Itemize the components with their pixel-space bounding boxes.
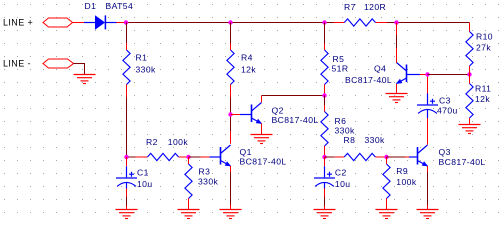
wire — [74, 64, 85, 75]
wire Q2 base — [231, 114, 241, 116]
wire Q2 collector — [261, 96, 263, 103]
svg-text:C2: C2 — [335, 167, 347, 177]
svg-text:330k: 330k — [136, 64, 157, 74]
svg-text:10u: 10u — [335, 179, 351, 189]
junction — [384, 155, 388, 159]
wire Q4 base — [407, 74, 421, 76]
ground — [417, 210, 439, 219]
svg-text:LINE +: LINE + — [3, 18, 33, 28]
svg-text:C3: C3 — [439, 96, 451, 106]
svg-text:BC817-40L: BC817-40L — [439, 157, 486, 167]
ground — [459, 125, 481, 134]
svg-text:R11: R11 — [475, 83, 491, 93]
svg-text:330k: 330k — [198, 177, 219, 187]
ground — [116, 210, 138, 219]
svg-text:R4: R4 — [241, 53, 253, 63]
node base wire to divider — [428, 74, 470, 76]
ground — [386, 94, 408, 103]
wire Q1 base — [189, 156, 201, 158]
svg-text:100k: 100k — [396, 177, 417, 187]
ground — [376, 210, 398, 219]
junction — [467, 72, 471, 76]
svg-text:120R: 120R — [364, 2, 386, 12]
wire Q1 emitter — [230, 166, 232, 172]
svg-text:10u: 10u — [137, 179, 153, 189]
junction — [322, 155, 326, 159]
svg-text:12k: 12k — [241, 64, 256, 74]
svg-text:R8: R8 — [344, 135, 356, 145]
wire — [376, 22, 388, 24]
wire — [387, 22, 470, 24]
svg-text:12k: 12k — [475, 94, 490, 104]
svg-text:C1: C1 — [137, 167, 149, 177]
wire — [117, 22, 129, 24]
wire Q2 emitter — [261, 123, 263, 134]
svg-text:27k: 27k — [476, 43, 491, 53]
svg-text:BAT54: BAT54 — [106, 1, 134, 11]
wire — [230, 85, 232, 98]
ground — [251, 135, 273, 144]
svg-text:51R: 51R — [332, 63, 349, 73]
svg-text:Q2: Q2 — [272, 105, 284, 115]
svg-text:BC817-40L: BC817-40L — [272, 115, 319, 125]
ground — [178, 210, 200, 219]
svg-text:R9: R9 — [396, 166, 408, 176]
wire Q3 collector — [427, 118, 429, 145]
ground — [314, 210, 336, 219]
svg-text:LINE -: LINE - — [3, 59, 31, 69]
ground — [74, 75, 96, 84]
svg-text:R6: R6 — [335, 116, 347, 126]
svg-text:Q4: Q4 — [374, 64, 386, 74]
svg-text:100k: 100k — [168, 137, 189, 147]
ground — [220, 210, 242, 219]
svg-text:470u: 470u — [437, 105, 458, 115]
svg-text:R3: R3 — [199, 167, 211, 177]
svg-text:330k: 330k — [335, 126, 356, 136]
wire — [179, 156, 189, 158]
junction — [228, 20, 232, 24]
wire Q4 collector — [396, 23, 398, 36]
node VIN rail — [128, 22, 334, 24]
svg-text:BC817-40L: BC817-40L — [345, 75, 392, 85]
svg-text:D1: D1 — [85, 1, 97, 11]
wire Q3 emitter — [427, 166, 429, 172]
junction — [124, 155, 128, 159]
junction — [425, 72, 429, 76]
junction — [322, 93, 326, 97]
junction — [186, 155, 190, 159]
svg-text:R7: R7 — [344, 2, 356, 12]
svg-text:R10: R10 — [476, 32, 493, 42]
wire — [334, 22, 344, 24]
wire — [73, 22, 85, 24]
node mid row wire — [127, 156, 136, 158]
junction — [322, 20, 326, 24]
svg-text:Q3: Q3 — [439, 147, 451, 157]
svg-text:R2: R2 — [146, 137, 158, 147]
junction — [228, 112, 232, 116]
wire Q3 base — [387, 156, 406, 158]
svg-text:R1: R1 — [136, 53, 148, 63]
svg-text:330k: 330k — [365, 135, 386, 145]
svg-text:BC817-40L: BC817-40L — [240, 156, 287, 166]
wire Q4 emitter — [396, 84, 398, 94]
junction — [124, 20, 128, 24]
junction — [394, 20, 398, 24]
